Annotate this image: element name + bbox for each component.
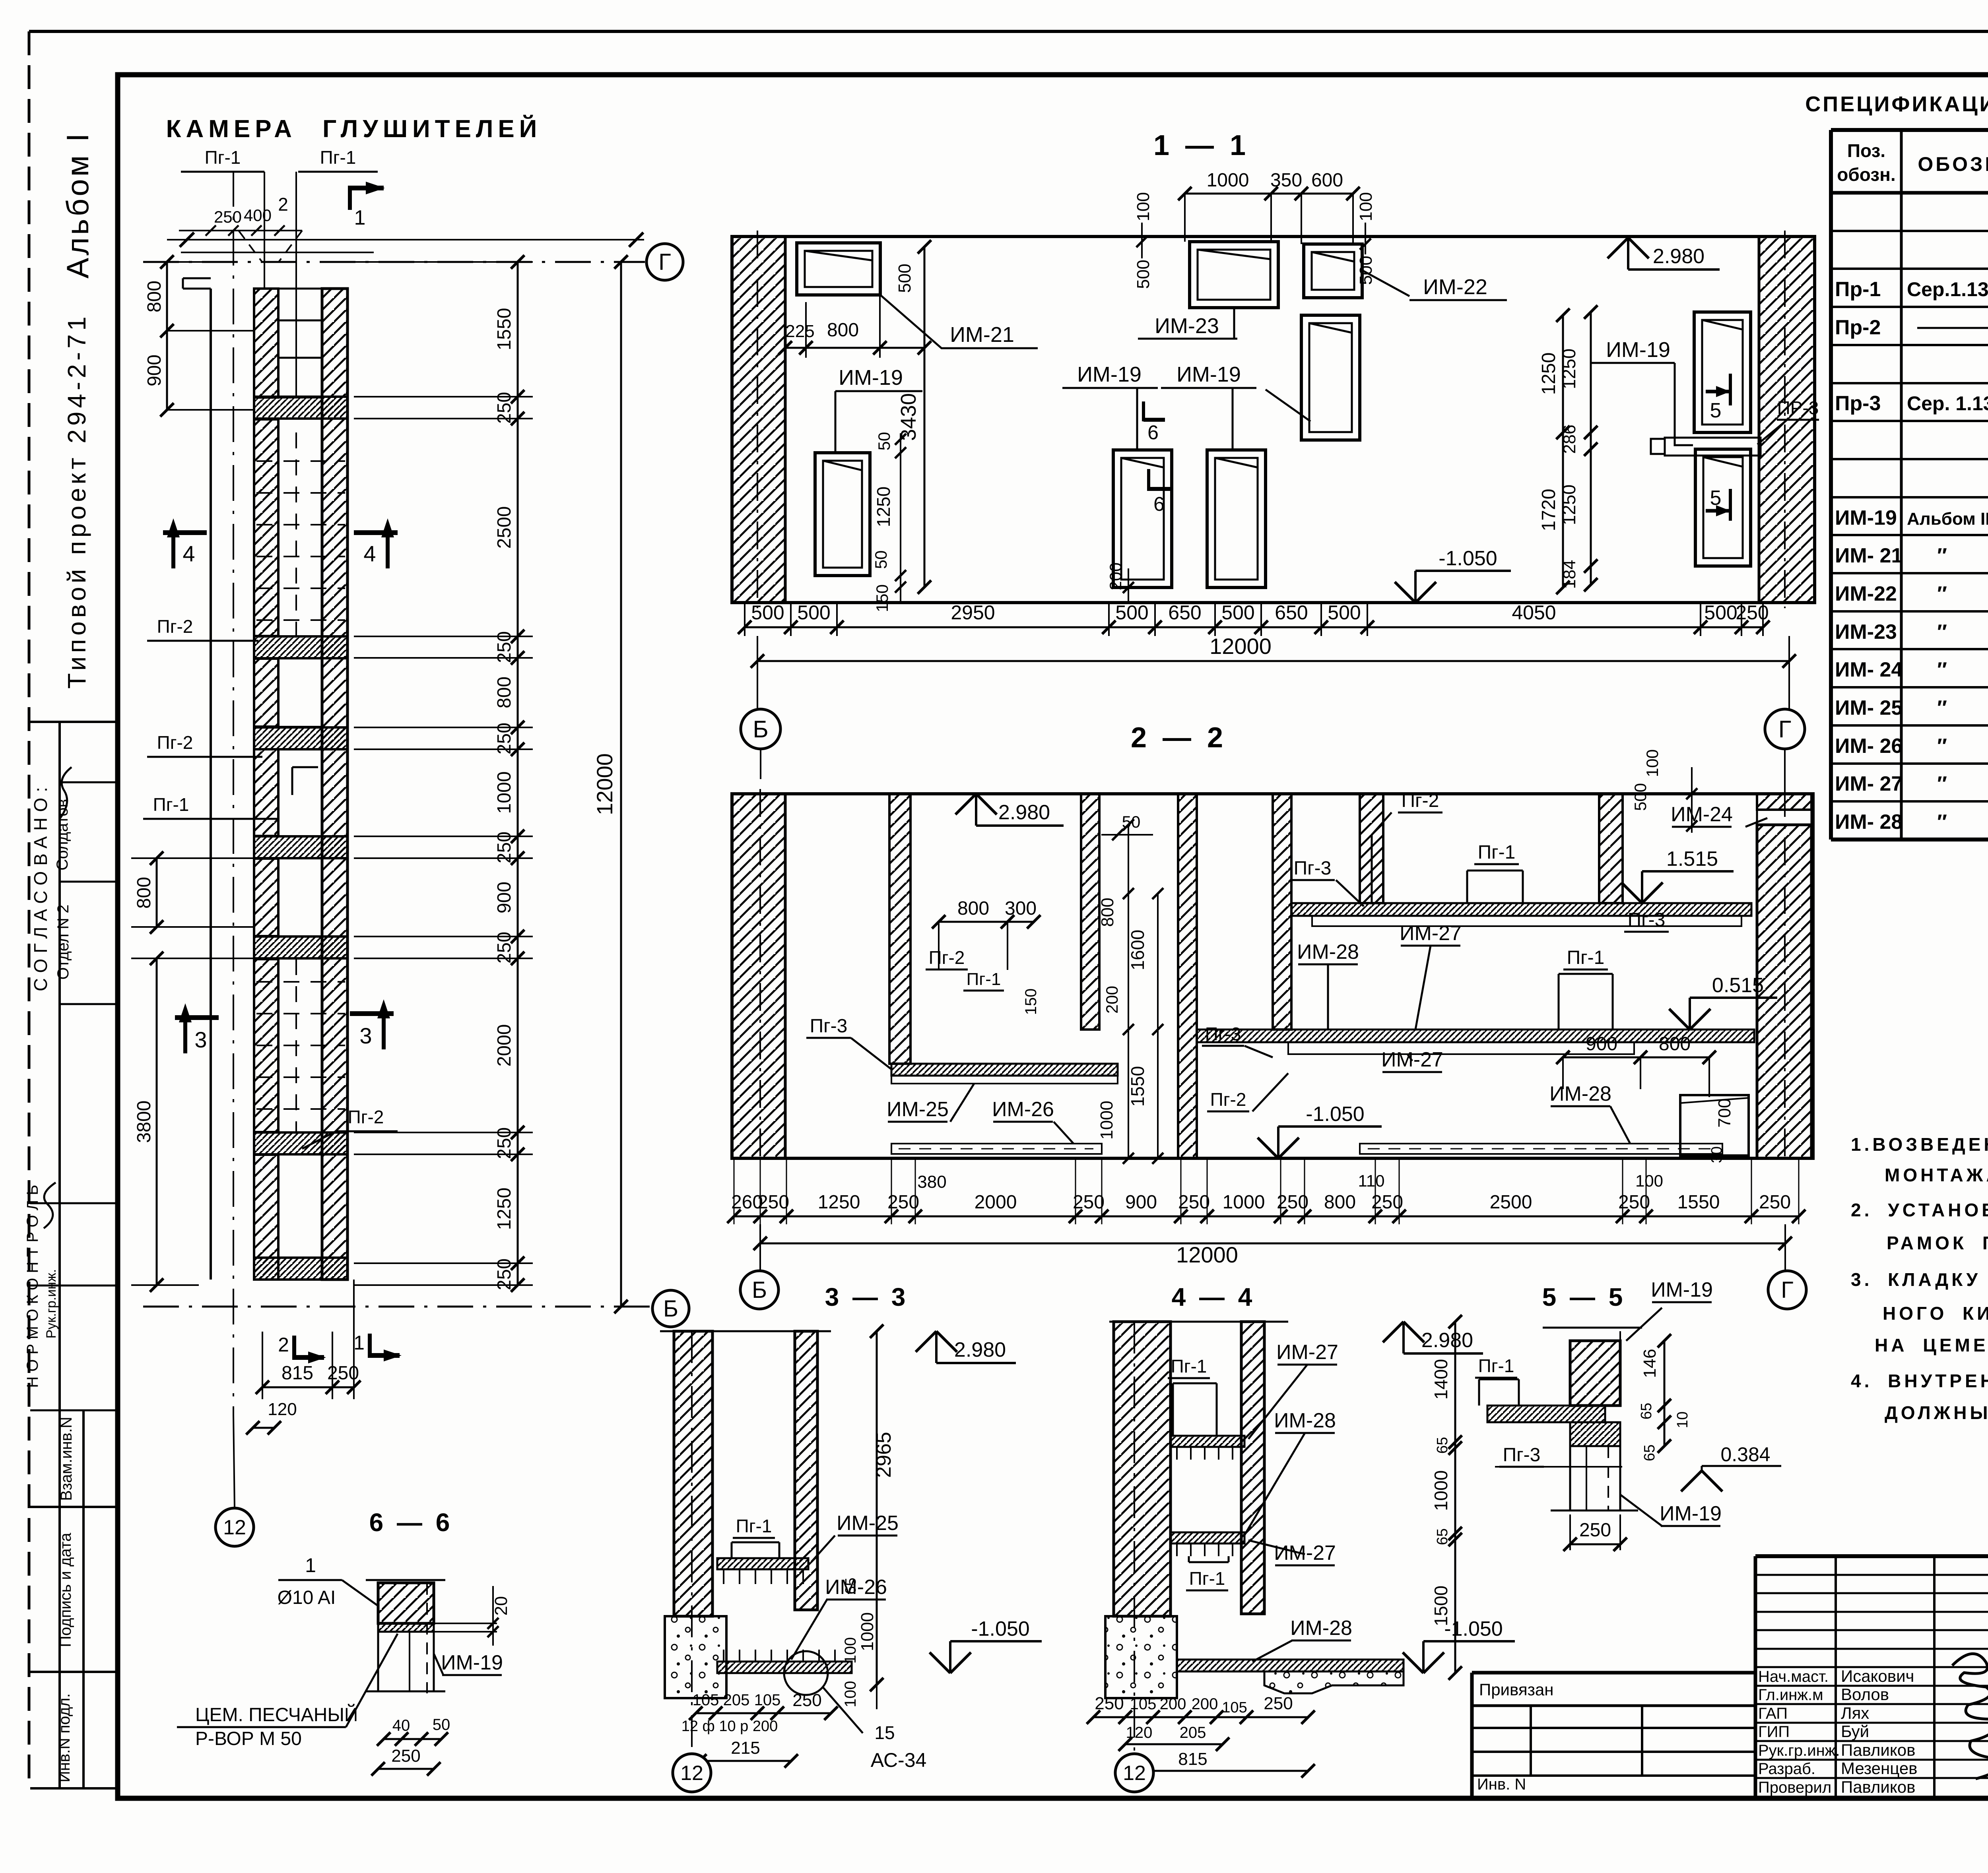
svg-text:650: 650 <box>1168 601 1201 624</box>
svg-text:65: 65 <box>1434 1437 1451 1454</box>
svg-text:ИМ-19: ИМ-19 <box>1176 363 1241 386</box>
svg-text:6: 6 <box>1147 421 1159 444</box>
svg-text:Пг-2: Пг-2 <box>1402 790 1439 811</box>
svg-text:100: 100 <box>1643 749 1662 777</box>
svg-text:2500: 2500 <box>494 506 515 549</box>
svg-text:ИМ-27: ИМ-27 <box>1274 1541 1336 1565</box>
svg-text:ИМ-23: ИМ-23 <box>1155 314 1219 338</box>
svg-text:500: 500 <box>895 264 914 293</box>
svg-text:Пр-3: Пр-3 <box>1835 392 1881 415</box>
svg-text:3: 3 <box>359 1023 372 1048</box>
svg-text:ИМ-27: ИМ-27 <box>1400 922 1462 945</box>
svg-text:250: 250 <box>757 1192 789 1213</box>
svg-text:Р-ВОР М 50: Р-ВОР М 50 <box>195 1728 302 1749</box>
svg-text:ИМ-28: ИМ-28 <box>1290 1617 1352 1640</box>
svg-text:900: 900 <box>144 355 165 386</box>
svg-text:Пг-1: Пг-1 <box>1171 1356 1207 1377</box>
svg-text:Сер.1.138-10 в. 2: Сер.1.138-10 в. 2 <box>1907 278 1988 301</box>
svg-text:12: 12 <box>680 1762 703 1785</box>
svg-text:СОГЛАСОВАНО:: СОГЛАСОВАНО: <box>30 781 51 991</box>
svg-text:5: 5 <box>1710 399 1722 422</box>
svg-text:1000: 1000 <box>1207 170 1249 191</box>
svg-text:1250: 1250 <box>1559 485 1579 525</box>
svg-text:800: 800 <box>827 320 859 341</box>
svg-text:20: 20 <box>491 1596 511 1616</box>
svg-text:ИМ-26: ИМ-26 <box>992 1098 1054 1121</box>
svg-text:КАМЕРА ГЛУШИТЕЛЕЙ: КАМЕРА ГЛУШИТЕЛЕЙ <box>166 115 542 143</box>
svg-text:12 ф 10 р 200: 12 ф 10 р 200 <box>681 1718 778 1735</box>
svg-text:ИМ-19: ИМ-19 <box>1835 506 1897 529</box>
svg-text:800: 800 <box>957 898 989 919</box>
svg-text:″: ″ <box>1937 658 1947 681</box>
svg-text:100: 100 <box>842 1637 859 1664</box>
svg-text:900: 900 <box>1586 1033 1617 1055</box>
svg-text:250: 250 <box>1277 1192 1309 1213</box>
svg-text:215: 215 <box>731 1738 760 1758</box>
svg-text:НОГО КИРПИЧА ПОЛУСУХ. ПРЕССОВА: НОГО КИРПИЧА ПОЛУСУХ. ПРЕССОВАНИЯ МАРКИ … <box>1883 1303 1988 1324</box>
svg-text:2.980: 2.980 <box>954 1338 1006 1361</box>
svg-text:1000: 1000 <box>494 772 515 814</box>
svg-text:250: 250 <box>1178 1192 1210 1213</box>
svg-text:2.980: 2.980 <box>1653 245 1705 268</box>
svg-text:150: 150 <box>873 584 891 612</box>
svg-text:ИМ-19: ИМ-19 <box>839 366 903 390</box>
svg-text:50: 50 <box>875 432 893 451</box>
svg-text:6: 6 <box>1153 493 1165 515</box>
svg-text:250: 250 <box>887 1192 919 1213</box>
svg-text:2.980: 2.980 <box>998 801 1050 824</box>
svg-text:205: 205 <box>1180 1724 1206 1741</box>
svg-text:Исакович: Исакович <box>1841 1667 1914 1685</box>
svg-text:800: 800 <box>1098 898 1117 927</box>
svg-text:Пг-3: Пг-3 <box>1628 909 1666 931</box>
svg-text:″: ″ <box>1937 696 1947 719</box>
svg-text:Пг-3: Пг-3 <box>1205 1024 1241 1044</box>
svg-text:Подпись и дата: Подпись и дата <box>57 1532 74 1647</box>
svg-text:1550: 1550 <box>1127 1066 1148 1107</box>
svg-text:65: 65 <box>1638 1403 1655 1419</box>
svg-text:ИМ- 25: ИМ- 25 <box>1835 696 1903 719</box>
svg-text:Инв.N подл.: Инв.N подл. <box>56 1693 73 1782</box>
svg-text:ИМ-21: ИМ-21 <box>950 323 1014 347</box>
svg-text:Пг-2: Пг-2 <box>929 947 965 968</box>
svg-text:1250: 1250 <box>1559 349 1579 389</box>
svg-text:Пг-1: Пг-1 <box>153 794 189 815</box>
svg-text:500: 500 <box>1115 601 1148 624</box>
svg-text:800: 800 <box>1659 1033 1691 1055</box>
svg-text:Привязан: Привязан <box>1479 1680 1553 1699</box>
svg-text:600: 600 <box>1311 170 1343 191</box>
svg-text:ИМ-25: ИМ-25 <box>837 1512 899 1535</box>
svg-text:500: 500 <box>1631 783 1650 811</box>
svg-text:Взам.инв.N: Взам.инв.N <box>58 1417 75 1501</box>
svg-text:Павликов: Павликов <box>1841 1741 1915 1759</box>
svg-text:900: 900 <box>1125 1192 1157 1213</box>
svg-text:Пг-2: Пг-2 <box>1210 1089 1246 1110</box>
svg-text:150: 150 <box>1022 989 1040 1015</box>
svg-text:2965: 2965 <box>872 1432 895 1478</box>
svg-text:0.515: 0.515 <box>1712 974 1764 997</box>
svg-text:Пг-1: Пг-1 <box>320 147 356 168</box>
svg-text:Пг-2: Пг-2 <box>157 732 193 753</box>
svg-text:СПЕЦИФИКАЦИЯ НА КАМЕРУ ГЛУШ: СПЕЦИФИКАЦИЯ НА КАМЕРУ ГЛУШИТЕЛЕЙ <box>1805 92 1988 116</box>
svg-text:250: 250 <box>391 1746 420 1766</box>
svg-text:700: 700 <box>1715 1098 1734 1127</box>
svg-text:ИМ-19: ИМ-19 <box>1651 1278 1713 1301</box>
svg-text:ГАП: ГАП <box>1758 1705 1788 1722</box>
svg-text:5 — 5: 5 — 5 <box>1542 1283 1623 1311</box>
svg-text:380: 380 <box>917 1172 946 1192</box>
svg-text:1550: 1550 <box>1677 1192 1720 1213</box>
svg-text:Б: Б <box>752 1277 767 1303</box>
svg-text:Волов: Волов <box>1841 1685 1889 1704</box>
svg-text:ИМ-19: ИМ-19 <box>1606 338 1670 362</box>
svg-text:12000: 12000 <box>1176 1242 1238 1267</box>
svg-text:″: ″ <box>1937 582 1947 605</box>
svg-text:Рук.гр.инж.: Рук.гр.инж. <box>44 1269 59 1339</box>
svg-text:300: 300 <box>1005 898 1037 919</box>
svg-text:2500: 2500 <box>1490 1192 1532 1213</box>
svg-text:1.515: 1.515 <box>1666 847 1718 871</box>
svg-text:обозн.: обозн. <box>1837 164 1895 185</box>
svg-text:ИМ- 26: ИМ- 26 <box>1835 735 1903 758</box>
svg-text:250: 250 <box>1264 1694 1293 1713</box>
svg-text:Солдатов: Солдатов <box>54 799 71 871</box>
svg-text:ИМ- 24: ИМ- 24 <box>1835 658 1903 681</box>
svg-text:Павликов: Павликов <box>1841 1778 1915 1796</box>
svg-text:1600: 1600 <box>1127 930 1148 970</box>
svg-text:500: 500 <box>1704 601 1737 624</box>
svg-text:0.384: 0.384 <box>1720 1443 1770 1466</box>
svg-text:ДОЛЖНЫ БЫТЬ ОШТУКАТУРЕНЫ.: ДОЛЖНЫ БЫТЬ ОШТУКАТУРЕНЫ. <box>1885 1402 1988 1423</box>
svg-text:3 — 3: 3 — 3 <box>825 1283 906 1311</box>
svg-text:4. ВНУТРЕННИЕ ПОВЕРХНОСТИ ГЛ: 4. ВНУТРЕННИЕ ПОВЕРХНОСТИ ГЛУШИТЕЛЕЙ <box>1851 1371 1988 1391</box>
svg-text:650: 650 <box>1275 601 1308 624</box>
svg-text:4 — 4: 4 — 4 <box>1172 1283 1252 1311</box>
svg-text:3800: 3800 <box>134 1101 155 1143</box>
svg-text:ГИП: ГИП <box>1758 1723 1790 1741</box>
svg-text:15: 15 <box>874 1722 895 1743</box>
svg-text:184: 184 <box>1560 560 1579 589</box>
svg-text:200: 200 <box>1160 1695 1186 1713</box>
svg-text:205: 205 <box>723 1691 750 1709</box>
svg-text:4050: 4050 <box>1512 601 1556 624</box>
svg-text:Пг-2: Пг-2 <box>348 1107 384 1127</box>
svg-text:АС-34: АС-34 <box>871 1749 927 1771</box>
svg-text:ИМ-28: ИМ-28 <box>1549 1082 1611 1105</box>
svg-text:4: 4 <box>363 541 376 566</box>
svg-text:МОНТАЖА ОБОРУДОВАНИЯ В ВЕНТ: МОНТАЖА ОБОРУДОВАНИЯ В ВЕНТКАМЕРЕ. <box>1885 1165 1988 1185</box>
svg-text:250: 250 <box>1371 1192 1403 1213</box>
svg-text:Пг-1: Пг-1 <box>1478 842 1516 863</box>
svg-text:5: 5 <box>1710 487 1722 510</box>
svg-text:2.980: 2.980 <box>1421 1329 1473 1352</box>
svg-text:65: 65 <box>1641 1444 1658 1461</box>
svg-text:250: 250 <box>1759 1192 1791 1213</box>
svg-text:500: 500 <box>751 601 784 624</box>
svg-text:2000: 2000 <box>975 1192 1017 1213</box>
svg-text:10: 10 <box>1674 1412 1691 1428</box>
svg-text:Лях: Лях <box>1841 1704 1869 1722</box>
svg-text:1 — 1: 1 — 1 <box>1153 130 1246 161</box>
svg-text:-1.050: -1.050 <box>1439 547 1497 570</box>
svg-text:120: 120 <box>268 1400 297 1419</box>
svg-text:65: 65 <box>843 1578 859 1594</box>
svg-text:1250: 1250 <box>1538 353 1559 395</box>
svg-text:500: 500 <box>1134 260 1153 289</box>
svg-text:″: ″ <box>1937 544 1947 567</box>
svg-text:2950: 2950 <box>951 601 995 624</box>
svg-text:Пг-1: Пг-1 <box>205 147 241 168</box>
svg-text:200: 200 <box>1103 986 1121 1014</box>
svg-text:105: 105 <box>1222 1699 1247 1716</box>
svg-text:ОБОЗНАЧЕНИЕ: ОБОЗНАЧЕНИЕ <box>1918 153 1988 175</box>
svg-text:286: 286 <box>1560 425 1579 454</box>
svg-text:Пг-1: Пг-1 <box>1189 1568 1225 1589</box>
svg-text:Отдел N 2: Отдел N 2 <box>54 904 72 979</box>
svg-text:1250: 1250 <box>494 1188 515 1230</box>
svg-text:-1.050: -1.050 <box>1306 1103 1364 1126</box>
svg-text:146: 146 <box>1640 1349 1660 1378</box>
svg-text:6 — 6: 6 — 6 <box>369 1508 450 1537</box>
svg-text:ИМ-19: ИМ-19 <box>1660 1502 1722 1525</box>
svg-text:200: 200 <box>1192 1695 1218 1713</box>
svg-text:350: 350 <box>1270 170 1302 191</box>
svg-text:500: 500 <box>1221 601 1254 624</box>
svg-text:800: 800 <box>134 877 155 909</box>
svg-text:815: 815 <box>282 1363 313 1384</box>
svg-text:800: 800 <box>1324 1192 1356 1213</box>
svg-text:4: 4 <box>182 541 195 566</box>
svg-text:Альбом II лист КМИ15: Альбом II лист КМИ15 <box>1907 509 1988 529</box>
svg-text:Пр-2: Пр-2 <box>1835 316 1881 339</box>
svg-text:12: 12 <box>223 1516 246 1539</box>
svg-text:12000: 12000 <box>592 753 617 815</box>
svg-text:ИМ- 27: ИМ- 27 <box>1835 772 1903 795</box>
svg-text:Пг-1: Пг-1 <box>1567 947 1605 968</box>
svg-text:Пг-3: Пг-3 <box>1503 1444 1541 1466</box>
svg-text:ИМ-19: ИМ-19 <box>1077 363 1142 386</box>
svg-text:Г: Г <box>1778 716 1792 743</box>
svg-text:″: ″ <box>1937 620 1947 644</box>
svg-text:105: 105 <box>693 1691 719 1709</box>
svg-text:Пг-1: Пг-1 <box>967 969 1001 989</box>
svg-text:2 — 2: 2 — 2 <box>1131 722 1223 754</box>
svg-text:-1.050: -1.050 <box>971 1617 1029 1640</box>
svg-text:Ø10 AI: Ø10 AI <box>278 1587 336 1608</box>
svg-text:815: 815 <box>1178 1749 1207 1769</box>
svg-text:65: 65 <box>1434 1528 1451 1545</box>
svg-text:ЦЕМ. ПЕСЧАНЫЙ: ЦЕМ. ПЕСЧАНЫЙ <box>195 1704 358 1726</box>
svg-text:1.ВОЗВЕДЕНИЕ ГЛУШИТЕЛЕЙ ВЫПО: 1.ВОЗВЕДЕНИЕ ГЛУШИТЕЛЕЙ ВЫПОЛНЯТЬ ПОСЛЕ <box>1851 1134 1988 1155</box>
svg-text:1: 1 <box>305 1554 316 1576</box>
svg-text:ИМ- 28: ИМ- 28 <box>1835 810 1903 834</box>
svg-text:Пр-1: Пр-1 <box>1835 278 1881 301</box>
svg-text:250: 250 <box>1579 1520 1611 1541</box>
svg-text:1000: 1000 <box>1097 1101 1116 1140</box>
svg-text:Проверил: Проверил <box>1758 1779 1831 1796</box>
svg-text:Буй: Буй <box>1841 1722 1869 1741</box>
svg-text:Пг-3: Пг-3 <box>1294 858 1332 879</box>
svg-text:НОРМОКОНТРОЛЬ: НОРМОКОНТРОЛЬ <box>24 1180 41 1388</box>
svg-text:Пг-1: Пг-1 <box>736 1516 772 1536</box>
svg-text:100: 100 <box>1635 1171 1663 1190</box>
svg-text:2: 2 <box>278 1334 289 1356</box>
svg-text:800: 800 <box>144 281 165 312</box>
svg-text:1000: 1000 <box>858 1612 877 1651</box>
svg-text:Г: Г <box>658 249 671 275</box>
svg-text:110: 110 <box>1358 1171 1385 1190</box>
svg-text:225: 225 <box>785 322 814 341</box>
svg-text:Инв. N: Инв. N <box>1477 1776 1526 1793</box>
svg-text:3: 3 <box>194 1027 207 1052</box>
svg-text:ИМ-27: ИМ-27 <box>1276 1341 1338 1364</box>
svg-text:-1.050: -1.050 <box>1444 1617 1503 1640</box>
svg-text:2000: 2000 <box>494 1024 515 1067</box>
svg-text:1000: 1000 <box>1431 1470 1451 1511</box>
svg-text:1720: 1720 <box>1538 489 1559 531</box>
svg-text:ИМ-22: ИМ-22 <box>1423 275 1487 299</box>
svg-text:40: 40 <box>392 1717 410 1734</box>
svg-text:30: 30 <box>1708 1146 1725 1163</box>
svg-text:400: 400 <box>244 206 272 225</box>
svg-text:ИМ-22: ИМ-22 <box>1835 582 1897 605</box>
svg-text:Пг-1: Пг-1 <box>1478 1355 1514 1376</box>
svg-text:ПР-3: ПР-3 <box>1777 397 1819 418</box>
svg-text:1250: 1250 <box>873 487 894 527</box>
svg-text:Альбом I: Альбом I <box>60 131 95 278</box>
svg-text:Нач.маст.: Нач.маст. <box>1758 1668 1829 1685</box>
svg-text:100: 100 <box>1356 192 1376 221</box>
svg-text:Сер. 1.138-10 в. 1: Сер. 1.138-10 в. 1 <box>1907 392 1988 415</box>
svg-text:200: 200 <box>1106 562 1125 590</box>
svg-text:800: 800 <box>494 677 515 708</box>
svg-text:Б: Б <box>753 716 768 743</box>
svg-text:Рук.гр.инж.: Рук.гр.инж. <box>1758 1742 1840 1759</box>
svg-text:ИМ-24: ИМ-24 <box>1671 803 1733 826</box>
svg-text:1000: 1000 <box>1223 1192 1265 1213</box>
svg-text:Пг-3: Пг-3 <box>810 1016 848 1037</box>
svg-text:″: ″ <box>1937 810 1947 834</box>
svg-text:ИМ-28: ИМ-28 <box>1274 1409 1336 1432</box>
svg-text:500: 500 <box>1328 601 1361 624</box>
svg-text:″: ″ <box>1937 735 1947 758</box>
svg-text:2: 2 <box>278 194 288 215</box>
svg-text:2. УСТАНОВКУ ОБРАМЛЯЮЩИХ И К: 2. УСТАНОВКУ ОБРАМЛЯЮЩИХ И КАССЕТНЫХ <box>1851 1200 1988 1220</box>
svg-text:Гл.инж.м: Гл.инж.м <box>1758 1686 1823 1704</box>
svg-text:250: 250 <box>1073 1192 1105 1213</box>
svg-text:ИМ-25: ИМ-25 <box>887 1098 949 1121</box>
svg-text:Г: Г <box>1781 1277 1793 1303</box>
svg-text:100: 100 <box>842 1681 859 1708</box>
svg-text:Поз.: Поз. <box>1847 140 1885 161</box>
svg-text:1: 1 <box>353 1332 365 1354</box>
svg-text:1: 1 <box>354 206 366 229</box>
svg-text:105: 105 <box>754 1691 781 1709</box>
svg-text:Б: Б <box>663 1296 678 1322</box>
svg-text:250: 250 <box>1736 601 1769 624</box>
svg-text:1400: 1400 <box>1431 1359 1451 1400</box>
svg-text:250: 250 <box>214 207 242 226</box>
svg-text:НА ЦЕМЕНТНО ИЗВЕСТКОВОМ РАСТ: НА ЦЕМЕНТНО ИЗВЕСТКОВОМ РАСТВОРЕ М 25. <box>1875 1335 1988 1355</box>
svg-text:100: 100 <box>1134 192 1153 221</box>
svg-text:500: 500 <box>1356 256 1376 285</box>
svg-text:250: 250 <box>792 1691 821 1710</box>
svg-text:12000: 12000 <box>1209 634 1272 659</box>
svg-text:900: 900 <box>494 882 515 913</box>
svg-text:РАМОК ПРОИЗВОДИТЬ ОДНОВРЕМЕННО: РАМОК ПРОИЗВОДИТЬ ОДНОВРЕМЕННО С КЛАДКОЙ… <box>1887 1233 1988 1253</box>
svg-text:50: 50 <box>433 1716 450 1733</box>
svg-text:ИМ-28: ИМ-28 <box>1297 940 1359 964</box>
svg-text:1550: 1550 <box>494 308 515 351</box>
svg-text:1500: 1500 <box>1431 1586 1451 1626</box>
svg-text:500: 500 <box>797 601 830 624</box>
svg-text:ИМ- 21: ИМ- 21 <box>1835 544 1903 567</box>
svg-text:″: ″ <box>1937 772 1947 795</box>
svg-text:1250: 1250 <box>818 1192 860 1213</box>
svg-text:Мезенцев: Мезенцев <box>1841 1759 1918 1778</box>
svg-text:Типовой проект 294-2-71: Типовой проект 294-2-71 <box>62 313 91 688</box>
svg-text:Пг-2: Пг-2 <box>157 616 193 637</box>
svg-text:Разраб.: Разраб. <box>1758 1760 1815 1778</box>
svg-text:3. КЛАДКУ ВЕСТИ ИЗ ОБЫКНОВЕ: 3. КЛАДКУ ВЕСТИ ИЗ ОБЫКНОВЕННОГО ГЛИНЯ- <box>1851 1269 1988 1290</box>
svg-text:50: 50 <box>872 551 890 569</box>
svg-text:12: 12 <box>1123 1762 1146 1785</box>
svg-text:ИМ-23: ИМ-23 <box>1835 620 1897 644</box>
svg-text:ИМ-19: ИМ-19 <box>441 1651 503 1674</box>
